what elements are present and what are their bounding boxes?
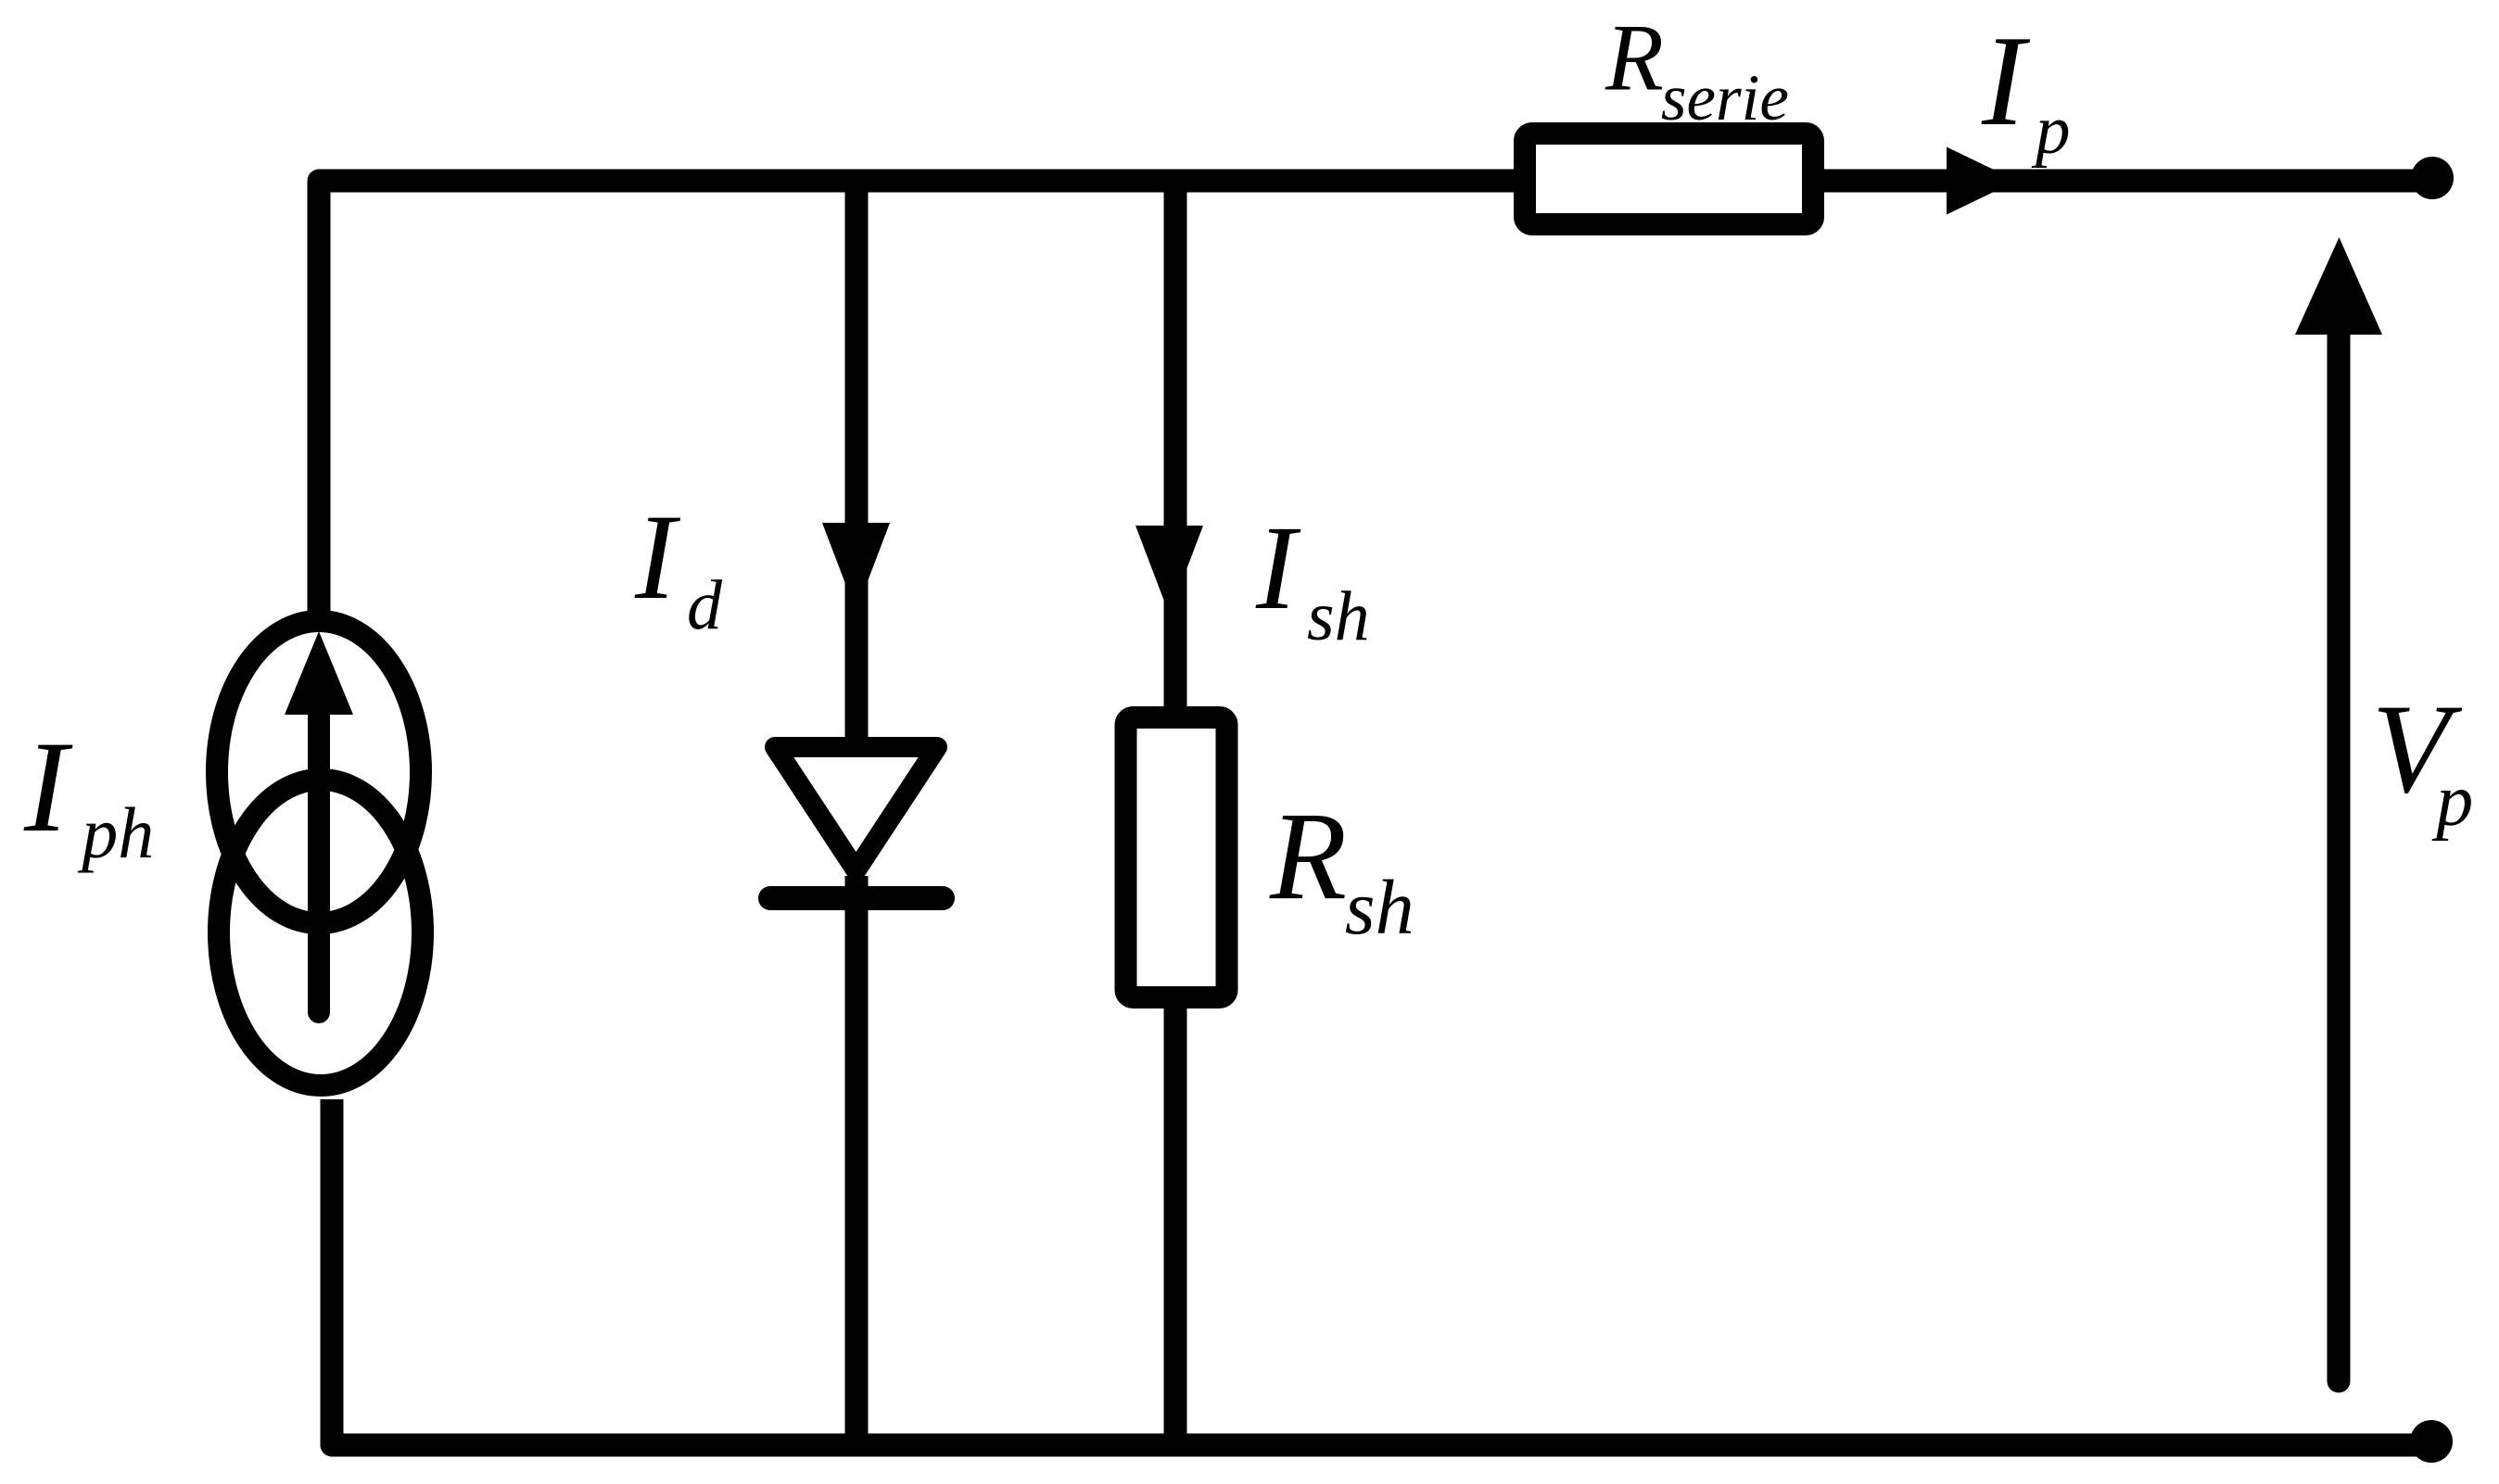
svg-text:I: I [634, 488, 681, 625]
node: top-right terminal dot [2411, 157, 2454, 199]
svg-text:sh: sh [1307, 577, 1370, 655]
resistor Rserie (horizontal rectangle on top bus) [1525, 133, 1813, 224]
arrow: Vp voltage (vertical, pointing up) [2328, 335, 2351, 1381]
node: bottom-right terminal dot [2410, 1420, 2453, 1463]
svg-text:I: I [1981, 9, 2031, 153]
svg-text:I: I [1255, 501, 1301, 635]
svg-text:sh: sh [1345, 865, 1414, 951]
arrow: Ip current direction (on top bus, pointing right) [1947, 147, 2017, 215]
diode cathode bar [770, 886, 943, 910]
svg-text:serie: serie [1661, 62, 1789, 134]
svg-text:I: I [23, 715, 73, 859]
svg-text:p: p [2031, 92, 2071, 169]
svg-text:ph: ph [77, 793, 154, 873]
resistor Rsh (vertical rectangle) [1126, 717, 1227, 997]
wire: top bus with left vertical drop (top-left corner) [319, 181, 2432, 621]
arrow: Iph current direction (inside source, pointing up) [308, 709, 330, 1012]
arrow: Id current direction (on diode branch, pointing down) [822, 523, 890, 612]
wire: bottom bus with left vertical rise (bottom-left corner) [332, 1099, 2431, 1445]
svg-text:R: R [1269, 787, 1347, 926]
diode D (triangle outline, pointing down) [775, 747, 937, 870]
wire: diode branch lower vertical [845, 876, 869, 1445]
svg-text:d: d [687, 566, 723, 644]
current source Iph (two overlapping ellipses) [217, 621, 421, 923]
wire: diode branch vertical (node between top bus and diode) [845, 181, 869, 751]
arrow: Ish current direction (on Rsh branch, pointing down) [1135, 526, 1203, 615]
svg-text:p: p [2431, 760, 2473, 842]
svg-text:R: R [1605, 6, 1664, 111]
wire: Rsh branch vertical [1164, 181, 1187, 1445]
